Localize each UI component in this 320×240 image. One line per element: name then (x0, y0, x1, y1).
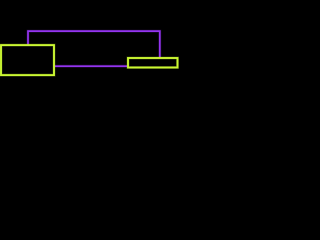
wire net N1: from U1 top pin up, across top, down to U2 top pin (28, 31, 160, 58)
block U1 (1, 45, 54, 75)
wire net N2: from U1 right pin to U2 left pin (54, 65, 128, 68)
block U2 (128, 58, 178, 68)
